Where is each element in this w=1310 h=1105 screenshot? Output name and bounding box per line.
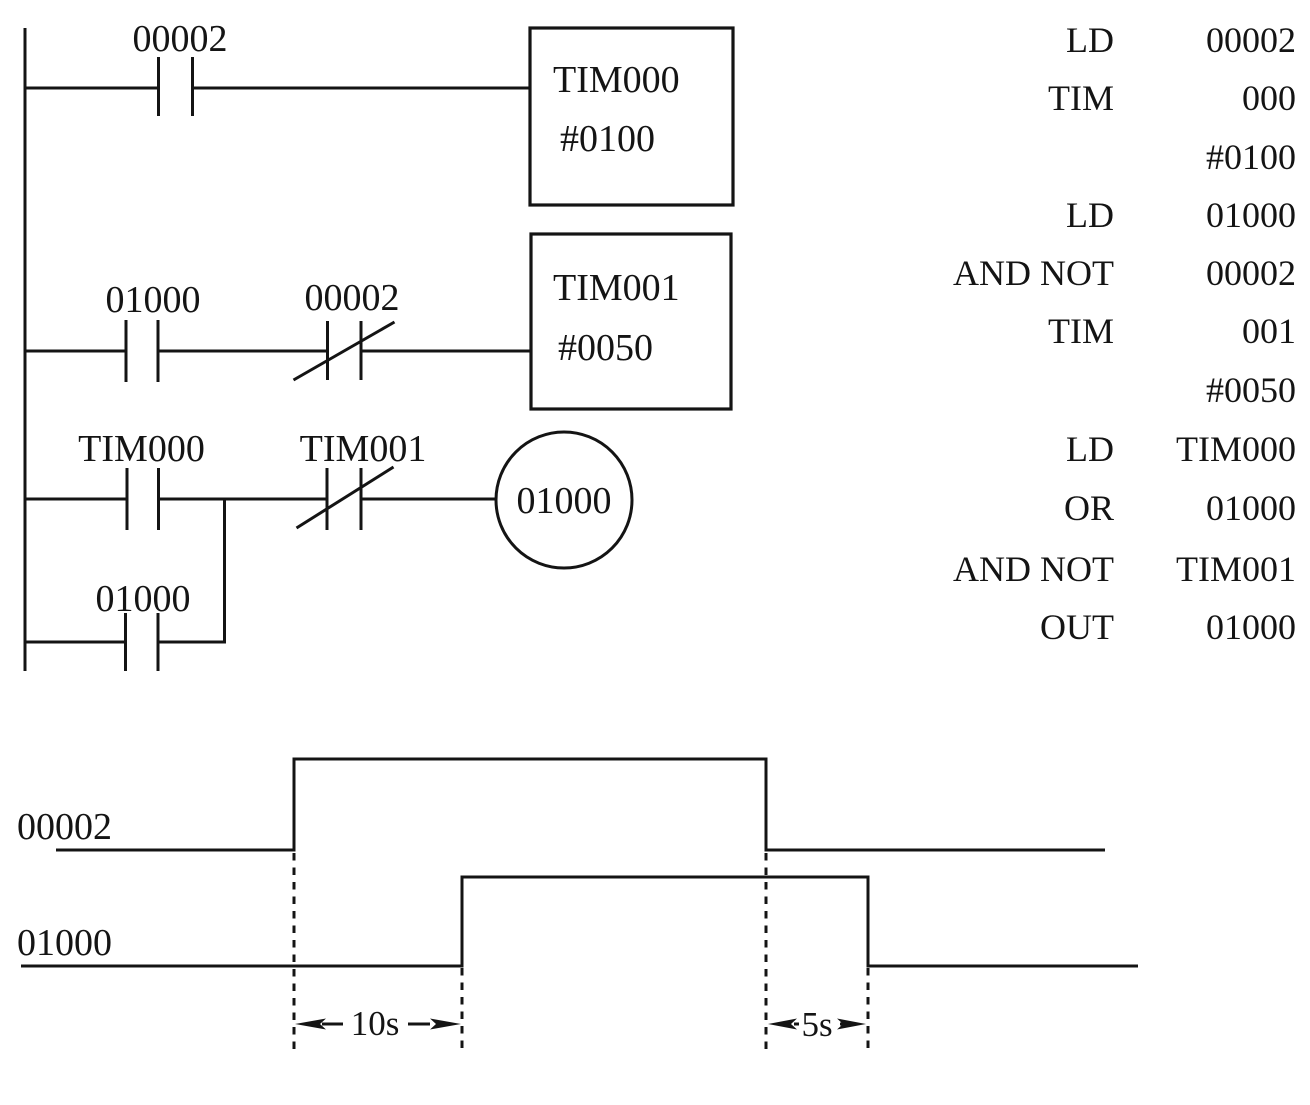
svg-text:10s: 10s — [351, 1004, 400, 1043]
contact 01000 (NO) branch — [126, 613, 159, 671]
wire rung3 middle segment — [159, 498, 328, 501]
wire rung3 left segment — [24, 498, 128, 501]
branch junction vertical wire — [223, 499, 226, 642]
wire rung1 right segment — [193, 87, 531, 90]
mnemonic line 9: OR 01000 — [1064, 488, 1296, 528]
svg-text:AND NOT: AND NOT — [953, 253, 1114, 293]
svg-text:01000: 01000 — [1206, 195, 1296, 235]
svg-text:001: 001 — [1242, 311, 1296, 351]
timer box TIM001 — [531, 234, 731, 409]
wire branch left segment — [24, 641, 126, 644]
dashed guide x=294 — [293, 853, 296, 1050]
svg-text:TIM001: TIM001 — [300, 428, 427, 470]
contact TIM000 (NO) rung3 — [127, 468, 159, 530]
svg-text:LD: LD — [1066, 429, 1114, 469]
svg-text:01000: 01000 — [1206, 488, 1296, 528]
svg-text:TIM: TIM — [1048, 311, 1114, 351]
mnemonic line 8: LD TIM000 — [1066, 429, 1296, 469]
contact 00002 (NO) rung1 — [159, 57, 193, 116]
svg-text:AND NOT: AND NOT — [953, 549, 1114, 589]
mnemonic line 5: AND NOT 00002 — [953, 253, 1296, 293]
wire rung2 right segment — [361, 350, 531, 353]
mnemonic line 10: AND NOT TIM001 — [953, 549, 1296, 589]
wire rung1 left segment — [24, 87, 159, 90]
contact 00002 (NC) rung2 — [294, 321, 395, 380]
svg-text:#0050: #0050 — [1206, 370, 1296, 410]
dashed guide x=462 — [461, 968, 464, 1050]
waveform 01000 — [21, 877, 1138, 966]
svg-text:01000: 01000 — [106, 279, 201, 321]
dimension arrow right (5s) — [768, 1019, 866, 1030]
svg-text:TIM001: TIM001 — [1176, 549, 1296, 589]
wire rung2 middle segment — [158, 350, 328, 353]
svg-text:#0100: #0100 — [560, 118, 655, 160]
svg-text:00002: 00002 — [133, 18, 228, 60]
contact TIM001 (NC) rung3 — [297, 467, 394, 530]
svg-text:01000: 01000 — [96, 578, 191, 620]
svg-text:000: 000 — [1242, 78, 1296, 118]
svg-text:01000: 01000 — [517, 480, 612, 522]
svg-text:01000: 01000 — [1206, 607, 1296, 647]
svg-text:#0100: #0100 — [1206, 137, 1296, 177]
wire rung2 left segment — [24, 350, 127, 353]
svg-text:00002: 00002 — [1206, 20, 1296, 60]
dashed guide x=868 — [867, 968, 870, 1052]
svg-text:00002: 00002 — [17, 806, 112, 848]
left power rail — [24, 28, 27, 671]
svg-text:LD: LD — [1066, 20, 1114, 60]
mnemonic line 11: OUT 01000 — [1040, 607, 1296, 647]
timer box TIM000 — [530, 28, 733, 205]
dashed guide x=766 — [765, 853, 768, 1052]
svg-text:TIM000: TIM000 — [1176, 429, 1296, 469]
wire branch right segment — [158, 641, 226, 644]
svg-text:TIM: TIM — [1048, 78, 1114, 118]
svg-text:TIM001: TIM001 — [553, 267, 680, 309]
dimension arrow left (10s) — [295, 1019, 461, 1030]
svg-text:LD: LD — [1066, 195, 1114, 235]
mnemonic line 4: LD 01000 — [1066, 195, 1296, 235]
svg-text:TIM000: TIM000 — [553, 59, 680, 101]
svg-text:#0050: #0050 — [558, 327, 653, 369]
svg-text:01000: 01000 — [17, 922, 112, 964]
svg-text:00002: 00002 — [1206, 253, 1296, 293]
wire rung3 right segment — [361, 498, 496, 501]
svg-text:OUT: OUT — [1040, 607, 1114, 647]
contact 01000 (NO) rung2 — [126, 320, 158, 382]
mnemonic line 1: LD 00002 — [1066, 20, 1296, 60]
svg-text:5s: 5s — [801, 1005, 832, 1044]
svg-text:00002: 00002 — [305, 277, 400, 319]
mnemonic line 6: TIM 001 — [1048, 311, 1296, 351]
output coil 01000 — [496, 432, 632, 568]
svg-text:TIM000: TIM000 — [78, 428, 205, 470]
waveform 00002 — [56, 759, 1105, 850]
svg-text:OR: OR — [1064, 488, 1114, 528]
mnemonic line 2: TIM 000 — [1048, 78, 1296, 118]
